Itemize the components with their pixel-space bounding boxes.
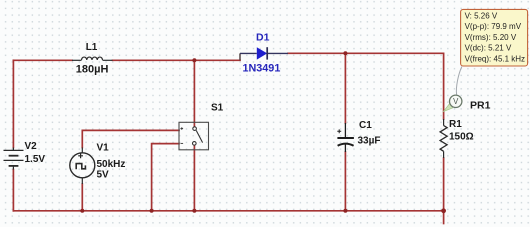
svg-text:5V: 5V: [97, 170, 110, 181]
svg-text:180µH: 180µH: [76, 64, 109, 76]
svg-text:D1: D1: [256, 32, 270, 44]
svg-text:V(p-p): 79.9 mV: V(p-p): 79.9 mV: [465, 22, 522, 31]
svg-text:V: V: [453, 97, 459, 106]
svg-text:V(freq): 45.1 kHz: V(freq): 45.1 kHz: [465, 55, 525, 64]
svg-text:C1: C1: [359, 120, 372, 131]
svg-text:L1: L1: [86, 42, 98, 53]
svg-text:150Ω: 150Ω: [449, 132, 474, 143]
svg-text:50kHz: 50kHz: [97, 159, 126, 170]
svg-text:S1: S1: [211, 102, 224, 113]
svg-text:V1: V1: [97, 143, 110, 154]
svg-text:1N3491: 1N3491: [243, 62, 281, 74]
svg-text:V: 5.26 V: V: 5.26 V: [465, 11, 498, 20]
svg-text:V2: V2: [25, 141, 38, 152]
svg-text:R1: R1: [449, 119, 462, 130]
svg-text:1.5V: 1.5V: [25, 154, 46, 165]
svg-text:33µF: 33µF: [358, 136, 381, 147]
svg-text:V(dc): 5.21 V: V(dc): 5.21 V: [465, 44, 512, 53]
svg-text:PR1: PR1: [470, 99, 491, 111]
svg-text:V(rms): 5.20 V: V(rms): 5.20 V: [465, 33, 517, 42]
